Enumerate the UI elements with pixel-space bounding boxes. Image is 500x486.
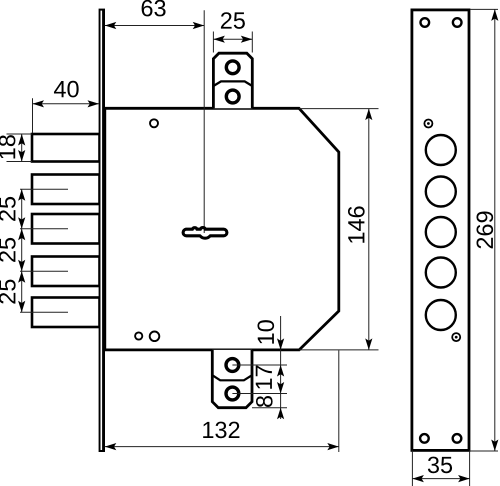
cylinder hole 5 <box>426 300 456 330</box>
dimension 146: top arrowhead <box>365 109 372 121</box>
dimension 35: left arrowhead <box>412 475 424 482</box>
arrowhead up at first tab hole line <box>277 365 284 377</box>
faceplate fixing screw upper (with dot) <box>424 120 432 128</box>
bolt B2 <box>32 175 100 205</box>
dimension 8: label <box>256 396 273 407</box>
lock body outline <box>105 108 339 350</box>
bottom tab collar (chevron) <box>212 375 252 380</box>
cylinder hole 4 <box>426 258 456 288</box>
dimension 25 b: label <box>0 238 16 262</box>
dimension 17: label <box>256 366 272 389</box>
bottom mounting tab outline <box>212 350 252 408</box>
dimension 269: extension lines <box>470 8 498 10</box>
dimension 10/17/8: shared vertical line <box>280 316 282 419</box>
bolt B5 <box>32 298 100 328</box>
dimension 269: line <box>494 9 496 451</box>
dimension 63: right arrowhead <box>193 22 205 29</box>
dimension 63: left arrowhead <box>105 22 117 29</box>
dimension 25 c: label <box>0 280 16 304</box>
cylinder hole 3 <box>426 217 456 247</box>
dimension 18: bottom arrowhead <box>18 150 25 162</box>
bolt center extension lines <box>20 188 68 190</box>
dimension 269: label <box>476 212 493 249</box>
faceplate side view (vertical bar) <box>99 9 105 452</box>
bottom tab circle extension lines <box>232 364 287 366</box>
dimension 18: extension lines <box>7 133 33 135</box>
cylinder axis center line <box>203 10 205 233</box>
dimension 10: label <box>257 320 274 343</box>
dimension 25 top: right arrowhead <box>241 36 253 43</box>
25 chain arrowheads at 228.75 <box>18 217 25 229</box>
dimension 35: right arrowhead <box>458 475 470 482</box>
dimension 35: line <box>412 478 469 480</box>
dimension 18: top arrowhead <box>18 134 25 146</box>
arrowhead up at tab bottom line <box>277 408 284 420</box>
faceplate screw hole top-left <box>421 18 430 27</box>
dimension 132: extension line right <box>338 350 340 452</box>
dimension 25 top: extension lines <box>212 32 214 53</box>
dimension 25 a: label <box>0 197 16 221</box>
top tab screw hole 2 <box>226 90 239 103</box>
25 chain arrowheads at 271.25 <box>18 260 25 272</box>
dimension 63: line <box>105 25 204 27</box>
dimension 269: top arrowhead <box>491 9 498 21</box>
cylinder hole 1 <box>426 135 456 165</box>
bottom tab screw hole 2 <box>226 387 239 400</box>
dimension 146: label <box>348 206 365 242</box>
cylinder hole 2 <box>426 177 456 207</box>
25 chain arrowhead at 189 up <box>18 189 25 201</box>
top tab collar (chevron) <box>213 81 252 86</box>
dimension 40: left arrowhead <box>33 100 45 107</box>
dimension 132: left arrowhead <box>105 443 117 450</box>
faceplate screw hole bottom-left <box>420 434 429 443</box>
dimension 18: label <box>0 135 15 158</box>
dimension 40: label <box>54 81 79 98</box>
dimension 25 chain: line <box>21 189 23 312</box>
dimension 25 top: left arrowhead <box>213 36 225 43</box>
faceplate screw hole top-right <box>453 18 462 27</box>
dimension 25 top: label <box>221 12 245 29</box>
hole (small circle bottom-left B) <box>150 332 160 342</box>
dimension 35: extension lines <box>411 450 413 486</box>
dimension 40: line <box>33 103 100 105</box>
dimension 35: label <box>428 457 452 474</box>
bottom tab screw hole 1 <box>226 359 239 372</box>
dimension 132: right arrowhead <box>327 443 339 450</box>
keyhole (double-bitted key slot) <box>183 228 227 239</box>
dimension 25 top: line <box>213 38 252 40</box>
dimension 146: bottom arrowhead <box>365 338 372 350</box>
25 chain arrowhead at 312.25 down <box>18 301 25 313</box>
faceplate fixing screw lower (with dot) <box>452 333 460 341</box>
faceplate front view outline <box>412 10 469 451</box>
hole (small circle top-left of body) <box>150 119 158 127</box>
dimension 269: bottom arrowhead <box>491 440 498 452</box>
faceplate screw hole bottom-right <box>453 434 462 443</box>
dimension 132: label <box>203 422 239 439</box>
bolt B4 <box>32 257 100 287</box>
bolt B3 <box>32 214 100 244</box>
top mounting tab outline <box>213 53 252 108</box>
hole (small circle bottom-left A) <box>135 332 142 339</box>
dimension 146: line <box>368 109 370 350</box>
bolt B1 (top deadbolt, 18mm) <box>32 134 100 162</box>
dimension 18: line <box>21 134 23 162</box>
dimension 146: extension lines <box>299 108 379 110</box>
dimension 132: line <box>105 446 339 448</box>
dimension 63: label <box>142 0 166 16</box>
dimension 40: right arrowhead <box>88 100 100 107</box>
dimension 40: extension line <box>32 98 34 133</box>
arrowhead down at second tab hole line <box>277 382 284 394</box>
arrowhead down at body bottom edge <box>277 338 284 350</box>
top tab screw hole 1 <box>226 61 239 74</box>
